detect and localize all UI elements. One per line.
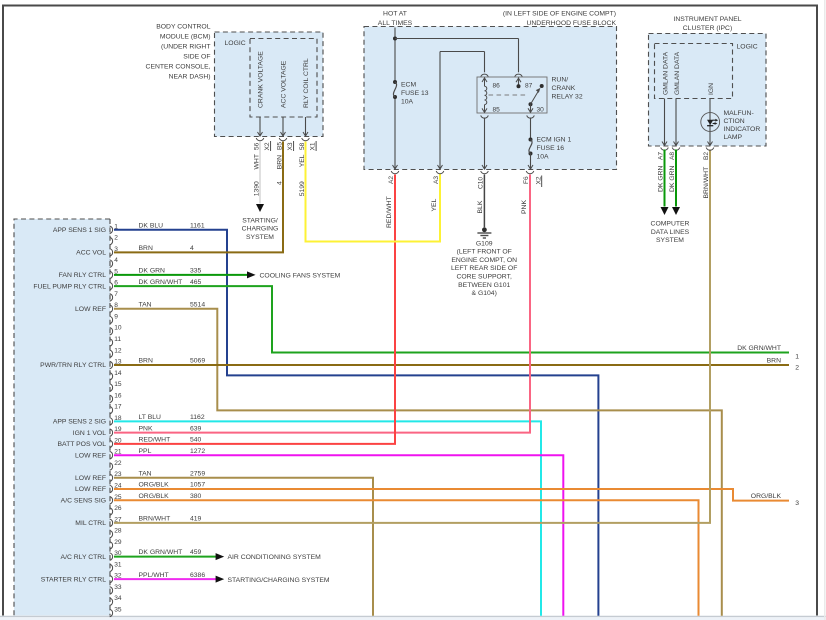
svg-text:PWR/TRN RLY CTRL: PWR/TRN RLY CTRL bbox=[40, 362, 106, 369]
svg-text:LOW REF: LOW REF bbox=[75, 306, 106, 313]
svg-text:5199: 5199 bbox=[299, 181, 306, 196]
svg-text:26: 26 bbox=[114, 505, 122, 512]
svg-text:PNK: PNK bbox=[521, 200, 528, 214]
svg-text:DK GRN/WHT: DK GRN/WHT bbox=[139, 279, 183, 286]
svg-text:BRN: BRN bbox=[276, 155, 283, 169]
svg-text:BRN/WHT: BRN/WHT bbox=[139, 515, 171, 522]
svg-text:IGN 1 VOL: IGN 1 VOL bbox=[73, 430, 106, 437]
svg-text:10A: 10A bbox=[401, 98, 414, 105]
svg-text:ORG/BLK: ORG/BLK bbox=[139, 493, 170, 500]
svg-text:YEL: YEL bbox=[299, 154, 306, 167]
svg-text:34: 34 bbox=[114, 595, 122, 602]
svg-text:SYSTEM: SYSTEM bbox=[656, 237, 684, 244]
svg-text:ACC VOL: ACC VOL bbox=[76, 250, 106, 257]
svg-text:540: 540 bbox=[190, 437, 202, 444]
svg-text:2759: 2759 bbox=[190, 470, 205, 477]
svg-text:DK GRN: DK GRN bbox=[657, 165, 664, 192]
svg-text:G109: G109 bbox=[476, 240, 493, 247]
svg-text:DK GRN/WHT: DK GRN/WHT bbox=[139, 549, 183, 556]
svg-text:465: 465 bbox=[190, 279, 202, 286]
svg-text:1272: 1272 bbox=[190, 448, 205, 455]
svg-text:11: 11 bbox=[114, 336, 121, 343]
svg-text:LOW REF: LOW REF bbox=[75, 452, 106, 459]
svg-text:A3: A3 bbox=[433, 176, 440, 184]
svg-text:85: 85 bbox=[493, 106, 501, 113]
svg-text:CTION: CTION bbox=[724, 118, 745, 125]
svg-text:DK GRN/WHT: DK GRN/WHT bbox=[737, 345, 781, 352]
svg-text:3: 3 bbox=[795, 500, 799, 507]
svg-text:28: 28 bbox=[114, 528, 122, 535]
svg-text:BRN: BRN bbox=[139, 358, 153, 365]
svg-text:GMLAN DATA: GMLAN DATA bbox=[662, 51, 669, 95]
svg-text:ALL TIMES: ALL TIMES bbox=[378, 20, 413, 27]
svg-text:CRANK: CRANK bbox=[552, 85, 576, 92]
svg-text:LOW REF: LOW REF bbox=[75, 486, 106, 493]
svg-text:335: 335 bbox=[190, 267, 202, 274]
svg-text:BRN/WHT: BRN/WHT bbox=[703, 167, 710, 199]
svg-text:STARTING/: STARTING/ bbox=[242, 218, 278, 225]
svg-text:DK GRN: DK GRN bbox=[139, 267, 166, 274]
svg-text:CRANK VOLTAGE: CRANK VOLTAGE bbox=[258, 51, 265, 108]
svg-text:1390: 1390 bbox=[253, 181, 260, 196]
svg-text:B2: B2 bbox=[703, 152, 710, 160]
svg-text:58: 58 bbox=[299, 142, 306, 150]
svg-text:2: 2 bbox=[114, 235, 118, 242]
svg-text:(IN LEFT SIDE OF ENGINE COMPT): (IN LEFT SIDE OF ENGINE COMPT) bbox=[503, 11, 616, 18]
svg-text:35: 35 bbox=[114, 606, 122, 613]
svg-text:ECM IGN 1: ECM IGN 1 bbox=[537, 136, 572, 143]
svg-text:ENGINE COMPT, ON: ENGINE COMPT, ON bbox=[451, 257, 517, 264]
svg-text:LT BLU: LT BLU bbox=[139, 414, 162, 421]
svg-text:SYSTEM: SYSTEM bbox=[246, 234, 274, 241]
svg-text:14: 14 bbox=[114, 370, 122, 377]
svg-text:BODY CONTROL: BODY CONTROL bbox=[156, 23, 210, 30]
svg-text:1: 1 bbox=[795, 353, 799, 360]
svg-text:CENTER CONSOLE,: CENTER CONSOLE, bbox=[146, 63, 211, 70]
svg-text:380: 380 bbox=[190, 493, 202, 500]
svg-text:22: 22 bbox=[114, 460, 122, 467]
svg-text:1057: 1057 bbox=[190, 482, 205, 489]
svg-text:FUEL PUMP RLY CTRL: FUEL PUMP RLY CTRL bbox=[33, 283, 106, 290]
svg-text:PPL/WHT: PPL/WHT bbox=[139, 572, 169, 579]
svg-text:WHT: WHT bbox=[253, 154, 260, 169]
svg-text:INSTRUMENT PANEL: INSTRUMENT PANEL bbox=[673, 16, 741, 23]
svg-text:FUSE 16: FUSE 16 bbox=[537, 145, 565, 152]
svg-text:7: 7 bbox=[114, 291, 118, 298]
svg-text:IGN: IGN bbox=[708, 83, 715, 95]
svg-text:4: 4 bbox=[190, 245, 194, 252]
svg-text:17: 17 bbox=[114, 404, 122, 411]
svg-text:16: 16 bbox=[114, 392, 122, 399]
svg-text:LOGIC: LOGIC bbox=[225, 40, 246, 47]
svg-text:C10: C10 bbox=[477, 177, 484, 189]
svg-text:B5: B5 bbox=[276, 142, 283, 150]
svg-text:MODULE (BCM): MODULE (BCM) bbox=[160, 33, 211, 40]
svg-text:COOLING FANS SYSTEM: COOLING FANS SYSTEM bbox=[260, 272, 341, 279]
svg-text:DATA LINES: DATA LINES bbox=[651, 229, 690, 236]
svg-text:PNK: PNK bbox=[139, 425, 153, 432]
svg-text:4: 4 bbox=[114, 257, 118, 264]
svg-text:5514: 5514 bbox=[190, 301, 205, 308]
svg-text:CHARGING: CHARGING bbox=[242, 226, 279, 233]
svg-text:F6: F6 bbox=[523, 176, 530, 184]
svg-text:BRN: BRN bbox=[767, 357, 781, 364]
svg-text:10A: 10A bbox=[537, 153, 550, 160]
svg-text:ORG/BLK: ORG/BLK bbox=[139, 482, 170, 489]
svg-text:STARTING/CHARGING SYSTEM: STARTING/CHARGING SYSTEM bbox=[228, 577, 330, 584]
svg-text:BLK: BLK bbox=[477, 200, 484, 213]
svg-text:A7: A7 bbox=[657, 152, 664, 160]
svg-text:A2: A2 bbox=[388, 176, 395, 184]
svg-text:BETWEEN G101: BETWEEN G101 bbox=[458, 282, 510, 289]
svg-text:1162: 1162 bbox=[190, 414, 205, 421]
svg-text:639: 639 bbox=[190, 425, 202, 432]
svg-text:1161: 1161 bbox=[190, 222, 205, 229]
svg-text:GMLAN DATA: GMLAN DATA bbox=[674, 51, 681, 95]
svg-text:RELAY 32: RELAY 32 bbox=[552, 94, 583, 101]
svg-text:29: 29 bbox=[114, 539, 122, 546]
svg-text:BATT POS VOL: BATT POS VOL bbox=[58, 441, 107, 448]
svg-text:CORE SUPPORT,: CORE SUPPORT, bbox=[456, 274, 512, 281]
svg-text:LOGIC: LOGIC bbox=[737, 44, 758, 51]
svg-text:SIDE OF: SIDE OF bbox=[183, 53, 210, 60]
svg-text:LOW REF: LOW REF bbox=[75, 475, 106, 482]
svg-text:86: 86 bbox=[493, 83, 501, 90]
svg-text:87: 87 bbox=[525, 83, 533, 90]
svg-text:419: 419 bbox=[190, 515, 202, 522]
svg-text:10: 10 bbox=[114, 325, 122, 332]
svg-text:UNDERHOOD FUSE BLOCK: UNDERHOOD FUSE BLOCK bbox=[526, 20, 616, 27]
svg-text:RUN/: RUN/ bbox=[552, 77, 569, 84]
svg-text:ECM: ECM bbox=[401, 81, 416, 88]
svg-text:BRN: BRN bbox=[139, 245, 153, 252]
svg-text:LAMP: LAMP bbox=[724, 134, 743, 141]
svg-text:4: 4 bbox=[276, 181, 283, 185]
svg-text:5069: 5069 bbox=[190, 358, 205, 365]
svg-text:6386: 6386 bbox=[190, 572, 205, 579]
svg-text:RED/WHT: RED/WHT bbox=[139, 437, 171, 444]
svg-text:APP SENS 1 SIG: APP SENS 1 SIG bbox=[53, 227, 106, 234]
svg-text:A8: A8 bbox=[669, 152, 676, 160]
svg-text:(UNDER RIGHT: (UNDER RIGHT bbox=[161, 43, 210, 50]
svg-text:COMPUTER: COMPUTER bbox=[651, 221, 690, 228]
svg-text:FUSE 13: FUSE 13 bbox=[401, 90, 429, 97]
svg-text:A/C RLY CTRL: A/C RLY CTRL bbox=[61, 554, 107, 561]
svg-text:MALFUN-: MALFUN- bbox=[724, 110, 754, 117]
svg-text:RED/WHT: RED/WHT bbox=[386, 196, 393, 228]
svg-text:MIL CTRL: MIL CTRL bbox=[75, 520, 106, 527]
svg-text:ORG/BLK: ORG/BLK bbox=[751, 493, 782, 500]
svg-text:FAN RLY CTRL: FAN RLY CTRL bbox=[59, 272, 107, 279]
svg-text:(LEFT FRONT OF: (LEFT FRONT OF bbox=[457, 249, 512, 256]
svg-text:12: 12 bbox=[114, 347, 122, 354]
svg-text:33: 33 bbox=[114, 584, 122, 591]
svg-text:AIR CONDITIONING SYSTEM: AIR CONDITIONING SYSTEM bbox=[228, 554, 322, 561]
svg-text:& G104): & G104) bbox=[472, 290, 497, 297]
svg-text:31: 31 bbox=[114, 561, 122, 568]
svg-text:HOT AT: HOT AT bbox=[383, 11, 407, 18]
svg-text:APP SENS 2 SIG: APP SENS 2 SIG bbox=[53, 419, 106, 426]
svg-text:PPL: PPL bbox=[139, 448, 152, 455]
svg-text:NEAR DASH): NEAR DASH) bbox=[169, 73, 211, 80]
svg-text:INDICATOR: INDICATOR bbox=[724, 126, 761, 133]
svg-text:RLY COIL CTRL: RLY COIL CTRL bbox=[303, 58, 310, 108]
svg-text:2: 2 bbox=[795, 364, 799, 371]
svg-text:9: 9 bbox=[114, 313, 118, 320]
svg-text:ACC VOLTAGE: ACC VOLTAGE bbox=[281, 60, 288, 108]
svg-text:DK GRN: DK GRN bbox=[669, 165, 676, 192]
svg-text:TAN: TAN bbox=[139, 301, 152, 308]
svg-text:56: 56 bbox=[253, 142, 260, 150]
svg-text:YEL: YEL bbox=[431, 198, 438, 211]
svg-text:459: 459 bbox=[190, 549, 202, 556]
svg-text:A/C SENS SIG: A/C SENS SIG bbox=[61, 497, 106, 504]
svg-text:LEFT REAR SIDE OF: LEFT REAR SIDE OF bbox=[451, 265, 517, 272]
svg-text:CLUSTER (IPC): CLUSTER (IPC) bbox=[683, 25, 732, 32]
svg-text:TAN: TAN bbox=[139, 470, 152, 477]
svg-text:30: 30 bbox=[537, 106, 545, 113]
svg-text:15: 15 bbox=[114, 381, 122, 388]
svg-text:STARTER RLY CTRL: STARTER RLY CTRL bbox=[41, 576, 106, 583]
svg-text:DK BLU: DK BLU bbox=[139, 222, 164, 229]
